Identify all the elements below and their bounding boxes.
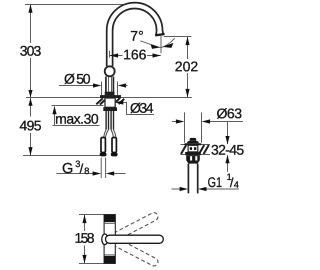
hose connector left	[100, 138, 107, 157]
node diam63 dimension	[172, 119, 243, 123]
node 32-45 dimension line	[225, 122, 229, 172]
drain tailpipe	[188, 164, 197, 194]
drain extension line right	[201, 112, 203, 142]
wire spout tip centerline	[160, 35, 162, 53]
ball joint	[105, 66, 115, 76]
svg-text:Ø 50: Ø 50	[64, 71, 91, 87]
node G38 dimension	[57, 158, 126, 178]
7deg arrowheads	[151, 44, 160, 49]
drain plug dome	[187, 141, 199, 143]
svg-text:/: /	[80, 161, 84, 176]
svg-text:G1: G1	[208, 174, 223, 190]
node 166 dimension	[110, 51, 161, 58]
drain locknut top	[185, 152, 201, 155]
base plate	[100, 95, 121, 98]
node 158 dimension	[79, 215, 104, 264]
svg-text:Ø34: Ø34	[130, 100, 154, 116]
drain deck band right	[198, 145, 210, 155]
wire top extension line	[25, 4, 125, 6]
drain nut taper	[186, 161, 199, 164]
svg-text:max.30: max.30	[55, 111, 99, 127]
svg-text:4: 4	[234, 180, 239, 190]
drain flange	[184, 143, 201, 145]
mounting shank	[105, 98, 115, 107]
faucet column	[106, 31, 114, 93]
svg-text:Ø63: Ø63	[216, 105, 242, 121]
svg-text:202: 202	[175, 58, 199, 74]
node 202 dimension	[185, 37, 189, 98]
svg-text:303: 303	[20, 43, 42, 59]
node 303-495 dimension line	[28, 4, 32, 155]
node G114 label	[208, 172, 239, 190]
mounting nut	[103, 107, 117, 111]
wire deck surface line right	[121, 97, 192, 99]
node G38 label	[62, 159, 89, 177]
svg-text:158: 158	[74, 230, 94, 246]
svg-text:32-45: 32-45	[211, 142, 244, 158]
hose left	[104, 111, 109, 138]
hose connector right	[111, 138, 118, 157]
plan spout solid	[102, 234, 164, 245]
plan body bar	[104, 215, 115, 264]
drain body	[188, 145, 198, 152]
drain castellated nut	[186, 155, 200, 160]
plan dashed spout up	[105, 211, 160, 245]
drain deck band left	[181, 145, 188, 155]
svg-text:G: G	[62, 161, 73, 177]
base collar	[105, 92, 115, 96]
node max30 dimension	[52, 106, 99, 126]
node G114 dimension	[172, 187, 239, 191]
wire max depth line	[52, 105, 104, 107]
node diam34 leader	[115, 100, 154, 114]
hose right	[111, 111, 116, 138]
wire 7deg right leg	[161, 38, 175, 47]
node diam50 dimension	[59, 82, 128, 96]
faucet spout arc	[107, 3, 164, 35]
drain plug knob	[190, 138, 197, 141]
svg-text:166: 166	[123, 46, 147, 62]
svg-text:8: 8	[84, 166, 89, 176]
wire 7deg leader	[140, 41, 160, 48]
deck hatch right	[116, 98, 124, 104]
wire spout tip extension right	[164, 36, 192, 38]
svg-text:495: 495	[19, 117, 41, 133]
wire bottom hose line	[23, 155, 100, 157]
wire deck surface line left	[26, 97, 100, 99]
deck hatch left	[96, 98, 105, 104]
drain extension line left	[184, 112, 186, 142]
spout aerator face	[155, 33, 165, 37]
plan dashed spout down	[105, 234, 160, 268]
